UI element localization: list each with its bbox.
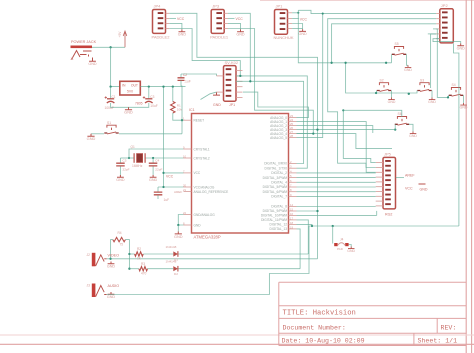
junction A3 vert: [316, 128, 318, 130]
ground S1: [87, 134, 96, 141]
svg-text:GND: GND: [116, 178, 125, 182]
wire S4 left: [436, 29, 448, 98]
wire S4 gnd: [463, 95, 465, 103]
wire JP4 gnd: [169, 23, 182, 29]
connector JP4: [152, 4, 171, 40]
ground C5: [116, 175, 125, 182]
svg-text:C1: C1: [112, 95, 116, 99]
JP4 pin 2 stub: [166, 17, 170, 19]
svg-text:470: 470: [141, 271, 147, 275]
svg-text:Document Number:: Document Number:: [283, 325, 346, 332]
junction r1 top: [172, 85, 174, 87]
svg-text:GND: GND: [236, 32, 245, 36]
svg-text:VCC/ANALOG: VCC/ANALOG: [194, 185, 215, 189]
svg-text:NUNCHUK: NUNCHUK: [274, 35, 294, 40]
svg-text:16: 16: [290, 212, 294, 216]
svg-text:PAD: PAD: [337, 247, 344, 251]
JP5 pin 4 stub: [376, 176, 383, 178]
svg-text:VCC: VCC: [236, 17, 244, 21]
wire d11 sync: [297, 220, 309, 254]
JP6 pin 1 stub: [288, 12, 293, 14]
wire R4 right: [125, 240, 129, 269]
capacitor C2 .1uF: [178, 73, 191, 86]
svg-text:J1: J1: [70, 57, 74, 61]
ground C4: [149, 175, 158, 182]
svg-text:AREF: AREF: [405, 173, 415, 177]
junction vcc rail: [162, 85, 164, 87]
svg-text:J4: J4: [340, 238, 344, 242]
JP5 pin 8 stub: [376, 195, 383, 197]
svg-text:14: 14: [290, 203, 294, 207]
svg-text:GND: GND: [107, 295, 116, 299]
svg-text:DIGITAL_0/RX0: DIGITAL_0/RX0: [264, 162, 287, 166]
wire S3 lead: [377, 91, 418, 94]
svg-text:PADDLE1: PADDLE1: [210, 34, 229, 39]
junction S5: [385, 62, 387, 64]
wire d7 jp5p8: [297, 195, 376, 197]
power jack J1: [70, 46, 93, 62]
wire S1 right: [119, 133, 182, 135]
label JP4 VCC: [169, 17, 184, 21]
wire S5 gnd: [407, 54, 409, 65]
wire video jack: [107, 258, 111, 260]
pushbutton S1: [104, 121, 118, 134]
label VCC: [166, 175, 174, 179]
svg-text:75: 75: [120, 242, 124, 246]
svg-text:SV-K02: SV-K02: [225, 60, 239, 65]
wire R4 left: [111, 240, 113, 259]
JP4 pin 1 stub: [166, 12, 170, 14]
svg-text:DIGITAL_10/PWM: DIGITAL_10/PWM: [261, 214, 287, 218]
svg-text:IN: IN: [122, 84, 126, 88]
JP2 pin 3 stub: [436, 23, 440, 25]
wire xtal1: [129, 149, 184, 158]
junction jog2: [249, 80, 251, 82]
junction reset: [181, 119, 183, 121]
regulator IC2 7805: [120, 81, 143, 105]
resistor R2: [129, 247, 143, 261]
pushbutton S3: [417, 78, 431, 91]
svg-text:R3: R3: [141, 262, 145, 266]
svg-text:1N4148: 1N4148: [166, 245, 177, 249]
svg-text:5V0: 5V0: [127, 89, 133, 93]
wire d2 jp5p3: [297, 172, 376, 174]
resistor R1: [171, 87, 183, 113]
wire S3 gnd: [431, 91, 433, 98]
svg-text:OUT: OUT: [131, 84, 138, 88]
JP5 pin 6 stub: [376, 186, 383, 188]
svg-text:VCC: VCC: [177, 17, 185, 21]
serial pin 1 stub right: [236, 70, 243, 72]
svg-text:VCC: VCC: [194, 171, 201, 175]
svg-text:S4: S4: [452, 83, 456, 87]
wire S6 gnd: [409, 124, 413, 131]
svg-text:DIGITAL_7: DIGITAL_7: [271, 195, 287, 199]
svg-text:DIGITAL_2: DIGITAL_2: [271, 171, 287, 175]
wire audio line: [107, 226, 310, 295]
frame top edge: [260, 0, 474, 2]
junction S6: [394, 128, 396, 130]
connector JP6 nunchuk: [274, 4, 294, 41]
wire JP6 pin1: [292, 12, 299, 14]
svg-text:J3: J3: [87, 283, 91, 287]
wire d8 jp5p10: [297, 206, 376, 208]
wire serial gnd diag: [201, 92, 217, 99]
wire JP2 p3 down: [330, 24, 436, 64]
JP5 pin 7 stub: [376, 191, 383, 193]
svg-text:JP2: JP2: [441, 3, 449, 8]
wire serial pin3 to D0: [236, 81, 304, 163]
wire D2 line: [179, 268, 301, 270]
svg-text:GND: GND: [428, 100, 436, 104]
ground S3: [428, 98, 436, 105]
junction gnd: [177, 224, 179, 226]
svg-text:JP1: JP1: [276, 4, 284, 9]
JP3 pin 1 stub: [224, 12, 228, 14]
ground J4: [347, 247, 355, 254]
resistor R3: [129, 262, 147, 276]
svg-text:GND: GND: [460, 106, 468, 110]
svg-text:IC1: IC1: [189, 108, 195, 112]
diode D1: [166, 245, 179, 262]
JP2 pin 6 stub: [436, 38, 440, 40]
frame bottom edge: [0, 335, 474, 344]
+5V symbol: [118, 31, 127, 48]
serial pin 5 stub right: [236, 91, 243, 93]
svg-text:JP1: JP1: [229, 103, 235, 107]
svg-text:GND: GND: [124, 110, 133, 115]
svg-text:22: 22: [183, 211, 187, 215]
wire reg out rail: [140, 86, 185, 88]
svg-text:VCC: VCC: [166, 175, 174, 179]
JP4 pin 4 stub: [166, 28, 170, 30]
JP4 pin 3 stub: [166, 22, 170, 24]
wire J4 gnd: [349, 245, 352, 247]
svg-text:GND: GND: [88, 62, 97, 66]
svg-text:S2: S2: [380, 78, 384, 82]
svg-text:JP4: JP4: [154, 4, 162, 9]
label JP6 VCC: [292, 17, 307, 21]
JP2 pin 4 stub: [436, 28, 440, 30]
svg-text:18: 18: [290, 221, 294, 225]
ground S4: [460, 103, 468, 110]
junction c3: [148, 85, 150, 87]
junction video1: [128, 253, 130, 255]
capacitor C1: [105, 87, 116, 110]
wire jack to +5V: [92, 46, 125, 48]
svg-text:GND: GND: [194, 223, 202, 227]
JP6 pin 4 stub: [288, 28, 293, 30]
svg-text:S1: S1: [107, 121, 111, 125]
svg-text:GND: GND: [178, 32, 187, 36]
svg-text:GND: GND: [87, 136, 96, 141]
wire JP3 pin4: [228, 29, 313, 134]
svg-text:17: 17: [290, 216, 294, 220]
wire S2 gnd: [391, 91, 393, 98]
op-amp U1 MCU ATMEGA328: [183, 108, 297, 240]
connector JP3: [210, 4, 229, 40]
wire JP6 pin4 gnd: [292, 28, 303, 30]
frame right edge: [466, 0, 471, 353]
svg-text:.1uF: .1uF: [184, 80, 191, 84]
JP3 pin 3 stub: [224, 22, 228, 24]
wire d13 video2: [297, 229, 301, 269]
junction vcc row: [162, 172, 164, 174]
wire d4 jp5p5: [297, 181, 376, 183]
capacitor C6 aref: [154, 187, 183, 202]
wire A5 riser: [297, 13, 324, 138]
svg-text:20: 20: [183, 183, 187, 187]
ground S5: [404, 65, 412, 72]
svg-text:15: 15: [290, 208, 294, 212]
svg-text:22pF: 22pF: [155, 168, 162, 172]
speaker J4: [334, 238, 348, 252]
svg-text:GND: GND: [174, 234, 183, 239]
label JP5 aref: [396, 173, 416, 177]
svg-text:C5: C5: [123, 158, 127, 162]
wire VCC row: [164, 172, 184, 174]
JP2 pin 2 stub: [436, 18, 440, 20]
wire d6 jp5p7: [297, 191, 376, 193]
JP3 pin 2 stub: [224, 17, 228, 19]
wire A2: [297, 126, 373, 133]
wire JP4 pin1: [169, 13, 317, 258]
wire A4 jog right: [297, 134, 393, 149]
serial pin5 stub left: [217, 91, 224, 93]
serial pin 3 stub right: [236, 80, 243, 82]
svg-text:1uF: 1uF: [164, 198, 170, 202]
wire gnd down: [177, 225, 179, 232]
wire R2 to D1: [143, 253, 173, 255]
junction A4 paddle: [312, 133, 314, 135]
svg-text:Sheet: 1/1: Sheet: 1/1: [418, 338, 458, 345]
crystal Q1: [131, 145, 146, 168]
svg-text:TITLE: Hackvision: TITLE: Hackvision: [283, 310, 356, 318]
ground JP3: [236, 30, 245, 37]
wire bundle h1 to S6: [343, 110, 402, 117]
wire R3 to D2: [148, 268, 174, 270]
wire S6 lead: [394, 124, 396, 129]
svg-text:DIGITAL_1/TX0: DIGITAL_1/TX0: [265, 166, 288, 170]
svg-text:DIGITAL_9/PWM: DIGITAL_9/PWM: [263, 209, 288, 213]
wire D1 line: [179, 253, 309, 255]
junction S3: [408, 93, 410, 95]
svg-text:GND: GND: [107, 264, 116, 268]
title block: [279, 282, 466, 345]
junction S2a: [344, 62, 346, 64]
svg-text:C4: C4: [155, 158, 159, 162]
JP5 pin 10 stub: [376, 205, 383, 207]
svg-text:VCC: VCC: [405, 187, 413, 191]
wire JP2 pin6 gnd: [433, 39, 461, 44]
svg-text:AREF: AREF: [174, 190, 182, 194]
svg-text:Q1: Q1: [131, 145, 135, 149]
svg-text:S5: S5: [395, 42, 399, 46]
ground S6: [409, 132, 417, 139]
ground JP2: [457, 44, 466, 51]
ground S2: [388, 98, 396, 105]
junction jack gnd: [109, 258, 111, 260]
junction xtal1: [128, 157, 130, 159]
svg-text:GND: GND: [298, 32, 307, 36]
svg-text:GND: GND: [347, 249, 355, 253]
svg-text:DIGITAL_6/PWM: DIGITAL_6/PWM: [263, 190, 288, 194]
connector JP1 serial: [224, 60, 239, 101]
pushbutton S6: [395, 112, 409, 125]
svg-text:RG2: RG2: [385, 213, 392, 217]
ground J3: [107, 292, 116, 299]
svg-text:10: 10: [183, 154, 187, 158]
wire nunchuk vert top: [297, 10, 299, 13]
svg-text:VIDEO: VIDEO: [108, 254, 120, 258]
svg-text:GND: GND: [388, 100, 396, 104]
JP3 pin 4 stub: [224, 28, 228, 30]
wire C2 top to JP1: [181, 74, 217, 76]
svg-text:GND: GND: [409, 134, 417, 138]
wire JP6 pin3 gnd: [292, 24, 303, 30]
svg-text:100uF: 100uF: [105, 106, 114, 110]
svg-text:CRYSTAL1: CRYSTAL1: [194, 147, 210, 151]
junction video2: [128, 268, 130, 270]
svg-text:DIGITAL_4: DIGITAL_4: [271, 181, 287, 185]
wire JP3 pin1: [228, 13, 250, 81]
svg-text:R2: R2: [137, 247, 141, 251]
wire agnd: [178, 215, 183, 226]
svg-text:AUDIO: AUDIO: [108, 284, 120, 288]
wire JP2 p1 jog: [298, 10, 436, 13]
svg-text:S6: S6: [398, 112, 402, 116]
svg-text:DIGITAL_3/PWM: DIGITAL_3/PWM: [263, 176, 288, 180]
ground J2: [107, 262, 116, 269]
wire d3 jp5p4: [297, 177, 376, 179]
wire jp5p1 riser: [343, 110, 375, 162]
serial pin 2 stub right: [236, 75, 243, 77]
wire S2 left: [346, 63, 377, 93]
wire d5 jp5p6: [297, 186, 376, 188]
ground J1: [88, 59, 97, 66]
svg-text:JP3: JP3: [212, 4, 220, 9]
svg-text:GND: GND: [457, 46, 466, 50]
JP5 pin 1 stub: [376, 162, 383, 164]
svg-text:GND: GND: [404, 68, 412, 72]
svg-text:D2: D2: [174, 272, 178, 276]
JP5 pin 3 stub: [376, 171, 383, 173]
svg-text:+5V: +5V: [118, 31, 122, 38]
wire R1 to reset: [173, 113, 184, 120]
wire jp5 bottom hook: [376, 211, 378, 216]
label JP3 VCC: [228, 17, 243, 21]
svg-text:J2: J2: [87, 253, 91, 257]
ground JP5: [419, 184, 428, 192]
connector JP5 right: [383, 152, 396, 209]
wire jp2 p4: [433, 28, 436, 30]
pushbutton S5: [392, 42, 406, 55]
svg-text:DIGITAL_11/PWM: DIGITAL_11/PWM: [261, 218, 287, 222]
svg-text:GND: GND: [149, 178, 158, 182]
label serial JP1: [213, 103, 235, 107]
resistor R4: [113, 231, 126, 246]
ground regulator: [124, 107, 133, 114]
wire serial pin2 to D1: [236, 76, 307, 168]
svg-text:GND/ANALOG: GND/ANALOG: [194, 213, 216, 217]
diode D2: [166, 260, 179, 277]
junction jog1: [239, 75, 241, 77]
junction S4: [447, 96, 449, 98]
svg-text:DIGITAL_12: DIGITAL_12: [270, 223, 288, 227]
junction avcc: [162, 186, 164, 188]
svg-text:19: 19: [290, 225, 294, 229]
wire caps gnd: [111, 103, 149, 107]
wire JP2 right down: [454, 43, 459, 226]
junction xtal2: [152, 157, 154, 159]
audio jack J3: [87, 283, 120, 297]
svg-text:21: 21: [183, 188, 187, 192]
wire A1 to JP5p3: [297, 122, 376, 173]
svg-text:DIGITAL_13: DIGITAL_13: [270, 227, 288, 231]
svg-text:1N4148: 1N4148: [166, 260, 177, 264]
svg-text:REV:: REV:: [441, 325, 457, 332]
junction S2b: [375, 92, 377, 94]
wire S1 left: [91, 133, 104, 135]
wire AVCC row: [158, 186, 184, 188]
junction p1 riser: [342, 109, 344, 111]
junction reg in: [109, 85, 111, 87]
svg-text:POWER JACK: POWER JACK: [71, 40, 97, 44]
wire JP4 pin4: [169, 29, 240, 76]
svg-text:GND: GND: [420, 188, 428, 192]
svg-text:GND: GND: [213, 103, 221, 107]
svg-text:10k: 10k: [177, 108, 182, 112]
wire d12: [297, 224, 314, 227]
svg-text:CRYSTAL2: CRYSTAL2: [194, 156, 210, 160]
wire VCC riser: [163, 87, 165, 187]
svg-text:R4: R4: [118, 231, 122, 235]
wire d9 video tee: [297, 210, 319, 212]
junction J4: [332, 225, 334, 227]
wire audio to J4: [309, 225, 459, 227]
junction jack: [109, 46, 111, 48]
svg-text:JP5: JP5: [384, 152, 392, 157]
serial pin 6 stub right: [236, 97, 243, 99]
pushbutton S4: [449, 83, 463, 96]
wire video line: [111, 258, 318, 260]
power jack J1 label: [71, 40, 97, 44]
svg-text:C3: C3: [150, 95, 154, 99]
ground serial: [213, 93, 220, 96]
svg-text:RESET: RESET: [194, 119, 205, 123]
JP6 pin 2 stub: [288, 18, 293, 20]
svg-text:DIGITAL_8: DIGITAL_8: [271, 205, 287, 209]
capacitor C4: [149, 158, 163, 175]
wire S5 net: [298, 13, 391, 63]
wire J4 down: [332, 226, 334, 244]
wire JP3 gnd: [228, 23, 241, 29]
ground JP6: [298, 29, 307, 36]
JP5 pin 9 stub: [376, 200, 383, 202]
svg-text:VCC: VCC: [300, 17, 308, 21]
JP2 pin 1 stub: [436, 13, 440, 15]
wire A3 to S6: [297, 129, 396, 131]
JP6 pin 3 stub: [288, 23, 293, 25]
svg-text:S3: S3: [420, 78, 424, 82]
ground MCU: [174, 232, 183, 239]
svg-text:28: 28: [290, 134, 294, 138]
JP5 pin 5 stub: [376, 181, 383, 183]
ground JP4: [178, 30, 187, 37]
capacitor C5: [116, 158, 129, 175]
wire C2 to reset: [181, 86, 182, 134]
svg-text:ANALOG_5: ANALOG_5: [270, 136, 287, 140]
